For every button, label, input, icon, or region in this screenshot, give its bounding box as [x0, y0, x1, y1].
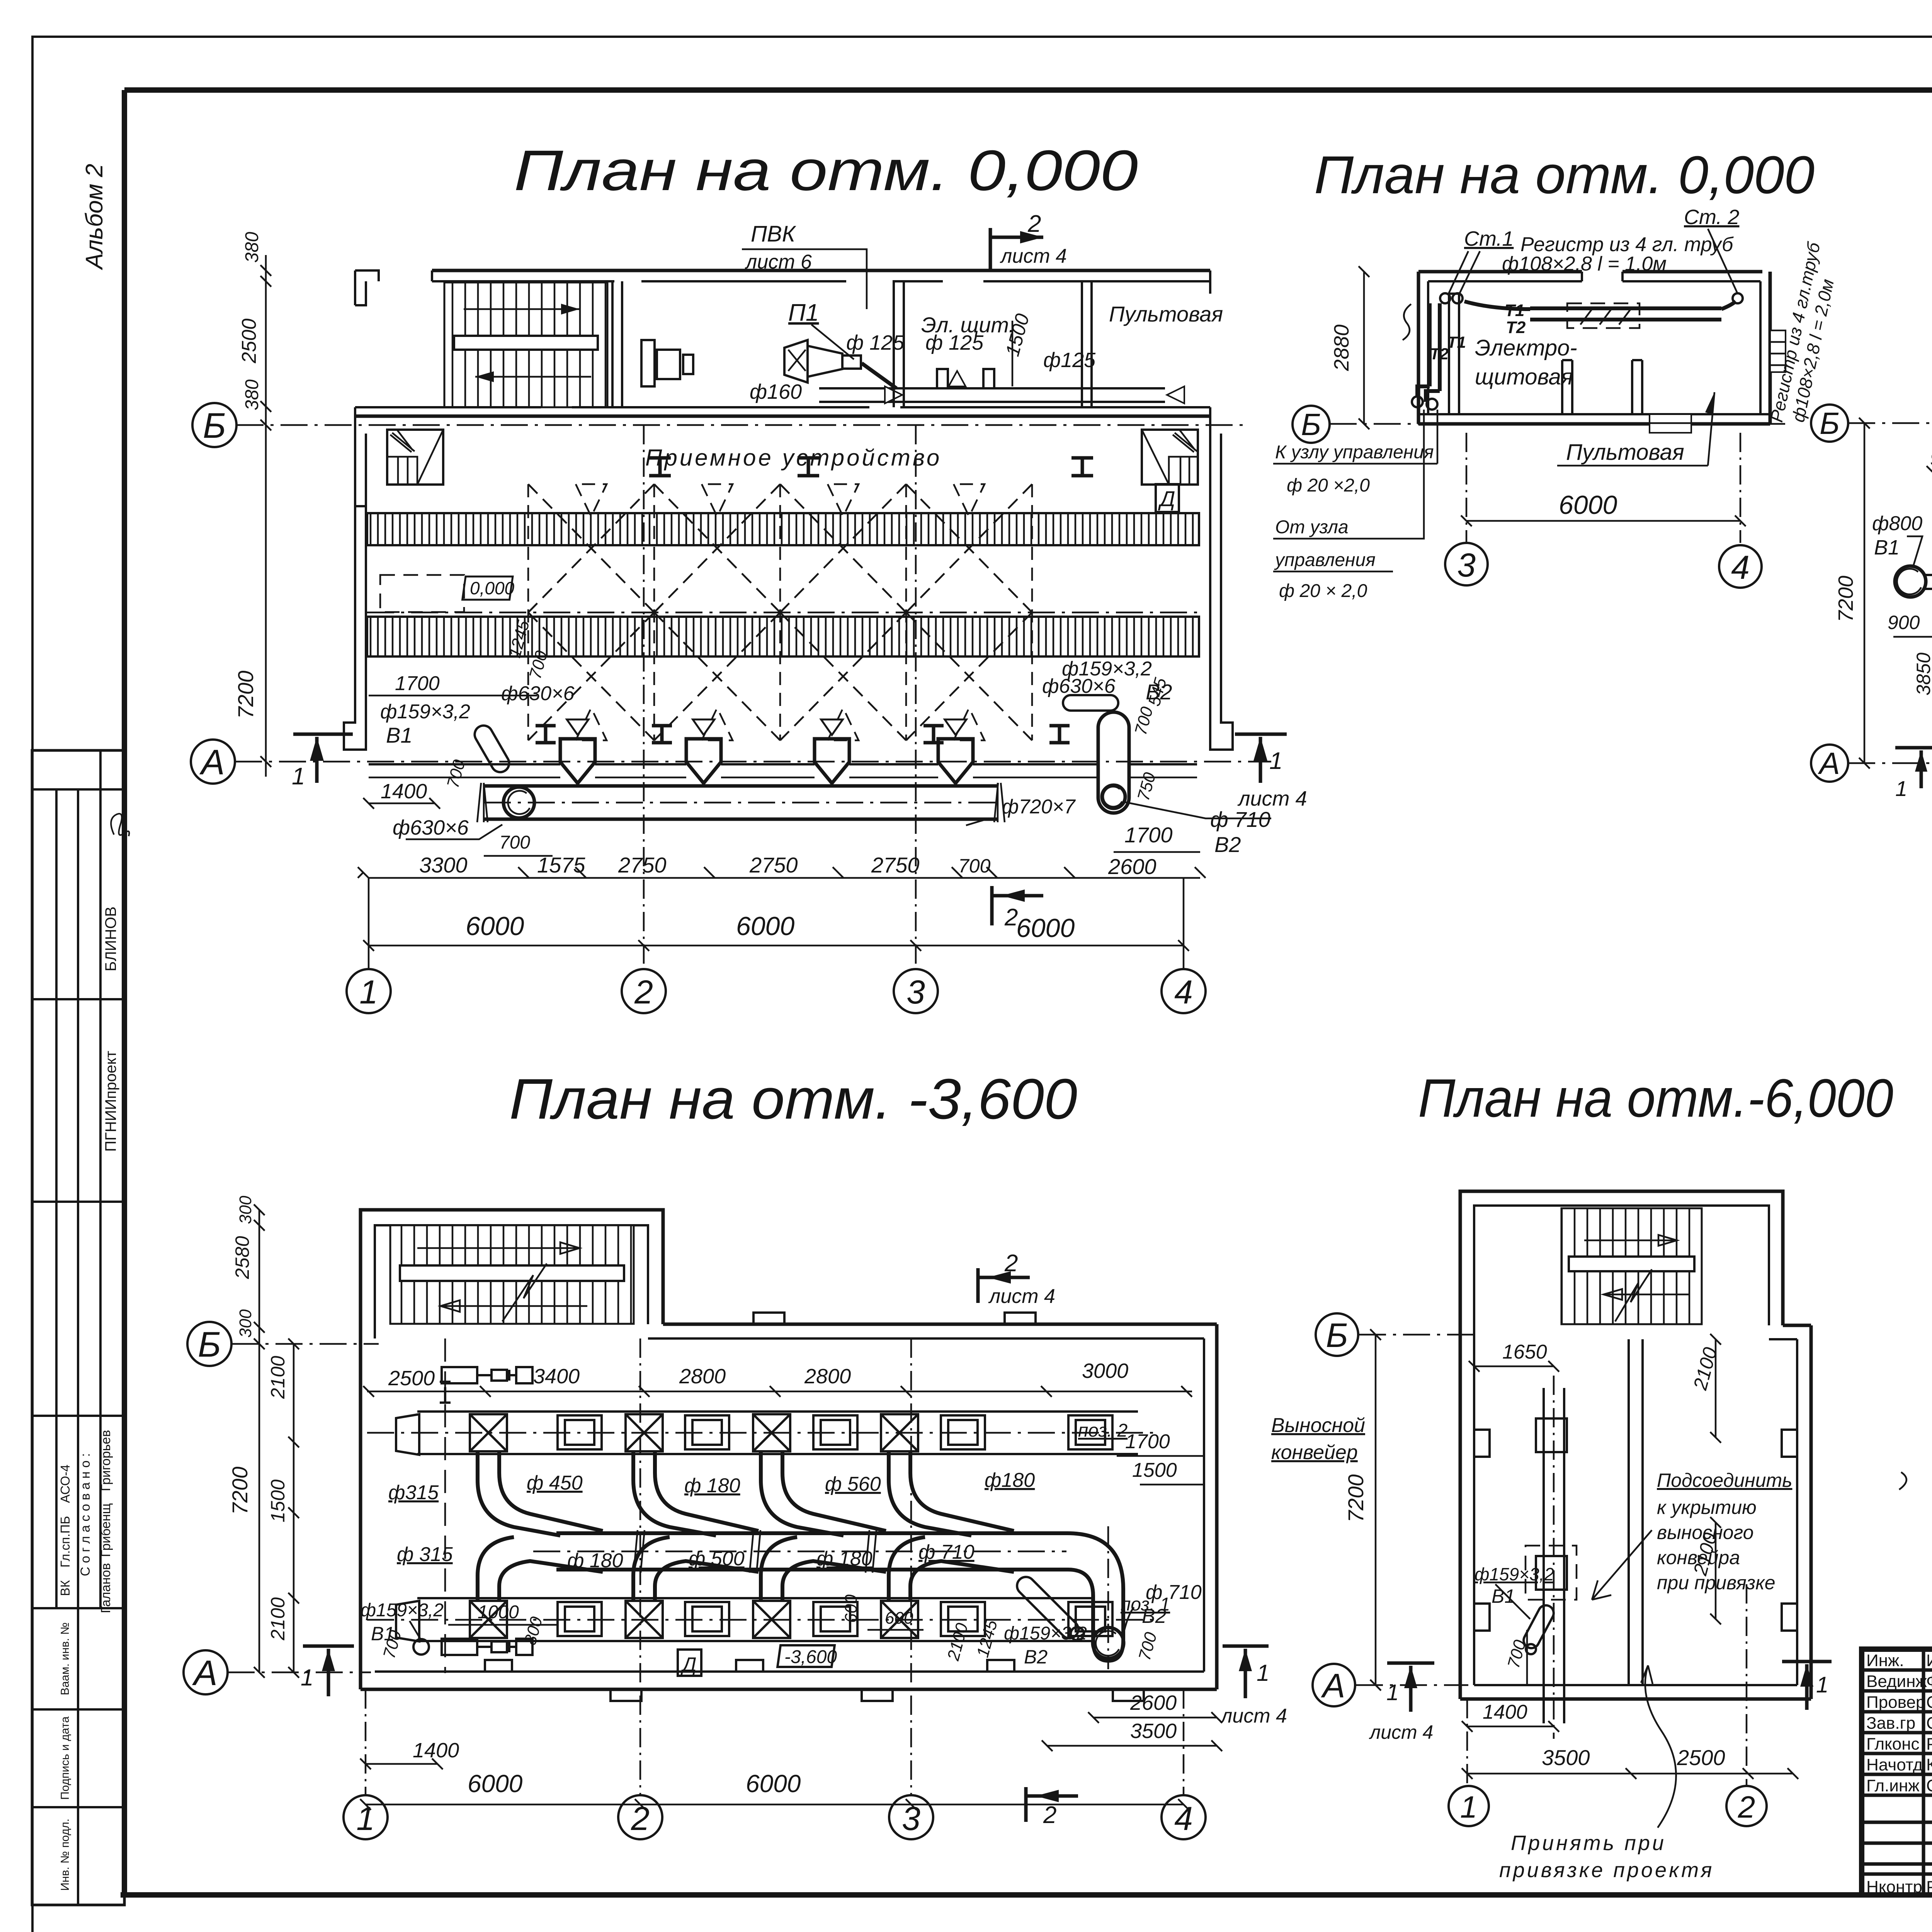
svg-text:К узлу управления: К узлу управления [1275, 442, 1434, 463]
svg-text:Пультовая: Пультовая [1566, 440, 1684, 465]
svg-text:6000: 6000 [468, 1770, 523, 1798]
dim 6000 chain [1466, 520, 1740, 522]
svg-text:2500: 2500 [1677, 1745, 1725, 1770]
svg-text:3500: 3500 [1542, 1745, 1590, 1770]
svg-text:ф159×3,2: ф159×3,2 [380, 701, 470, 723]
door steps bottom [1650, 414, 1691, 433]
svg-text:Приемное устройство: Приемное устройство [645, 445, 942, 471]
svg-text:7200: 7200 [233, 670, 258, 719]
axis B [1359, 1334, 1480, 1336]
dashed rect left [380, 575, 464, 612]
inclined hose B2 poz1 [1014, 1573, 1082, 1642]
lower branch pipes [478, 1537, 603, 1601]
svg-text:Д: Д [680, 1653, 697, 1676]
svg-text:1700: 1700 [1124, 823, 1173, 847]
riser St1 dots [1440, 293, 1450, 303]
svg-text:ф180: ф180 [985, 1469, 1035, 1492]
tower stair treads [390, 1225, 634, 1324]
svg-text:ф 20 ×2,0: ф 20 ×2,0 [1287, 475, 1370, 496]
svg-text:900: 900 [1930, 448, 1932, 469]
vent unit P1 rects [641, 340, 655, 386]
axis A circle [1811, 745, 1848, 782]
svg-text:1: 1 [1269, 748, 1282, 774]
svg-text:1: 1 [356, 1800, 375, 1837]
svg-text:2750: 2750 [749, 853, 798, 877]
vertical riser capsule B2 f710 [1098, 712, 1129, 813]
svg-text:Подсоединить: Подсоединить [1657, 1469, 1792, 1491]
inclined hose [1521, 1603, 1556, 1651]
svg-text:ф 500: ф 500 [689, 1548, 745, 1570]
svg-text:ф 560: ф 560 [825, 1473, 881, 1495]
svg-text:2500: 2500 [388, 1367, 435, 1390]
svg-text:700: 700 [958, 855, 991, 877]
inlet B1 circle [1895, 566, 1926, 597]
plan1 bottom dimension chain row1 [358, 823, 1206, 879]
plan1 grate strip lower [367, 617, 1199, 656]
svg-text:600: 600 [885, 1609, 913, 1628]
plan4 section flag 1 left [303, 1646, 354, 1696]
dim 2100 lower right [1715, 1522, 1717, 1619]
pipes to St1 [1464, 301, 1530, 309]
svg-text:1: 1 [292, 763, 305, 790]
top exterior wall [432, 269, 1210, 272]
riser axis dashline [444, 1338, 446, 1673]
B wall right part [1783, 1324, 1811, 1327]
hopper square upper 1 [470, 1414, 507, 1451]
svg-text:3300: 3300 [419, 853, 468, 877]
svg-text:Пультовая: Пультовая [1109, 302, 1223, 326]
duct f125 in vent chamber [862, 363, 896, 388]
axis circle B left [1293, 406, 1330, 443]
conveyor box upper 3 [813, 1415, 857, 1449]
stair tower walls [1460, 1191, 1783, 1699]
plan1 axis dim chain 6000s [363, 780, 1189, 951]
left upper wall pilaster [355, 270, 379, 305]
svg-text:В2: В2 [1024, 1646, 1048, 1668]
svg-text:Галанов: Галанов [99, 1563, 113, 1613]
axis B dashdot line [236, 424, 1248, 426]
hall left wall [355, 407, 366, 506]
svg-text:900: 900 [1888, 612, 1920, 633]
svg-text:Степанская: Степанская [1926, 1693, 1932, 1712]
svg-text:2500: 2500 [238, 318, 260, 364]
plan1 grid circles 1-4 [347, 425, 1206, 1013]
svg-text:1: 1 [301, 1665, 313, 1690]
svg-text:2800: 2800 [804, 1365, 851, 1388]
svg-text:Грибенщ: Грибенщ [99, 1503, 113, 1557]
plan4 main trunk duct [556, 1531, 1055, 1535]
svg-text:1500: 1500 [1132, 1459, 1177, 1481]
plan4 section flag 1 right [1223, 1646, 1269, 1698]
svg-text:ф315: ф315 [388, 1481, 439, 1504]
svg-text:конвейер: конвейер [1271, 1441, 1358, 1464]
svg-text:3: 3 [1457, 547, 1476, 584]
svg-text:Григорьев: Григорьев [99, 1430, 113, 1492]
svg-text:Инж.: Инж. [1866, 1651, 1904, 1670]
svg-text:Гл.инж: Гл.инж [1866, 1776, 1920, 1795]
axis A dashdot line [235, 761, 1271, 763]
plan4 top dim chain [363, 1359, 1192, 1397]
svg-text:ПГНИИпроект: ПГНИИпроект [102, 1051, 119, 1151]
svg-text:ф 710: ф 710 [1210, 807, 1270, 832]
svg-text:1: 1 [1895, 776, 1907, 801]
svg-text:С о г л а с о в а н о :: С о г л а с о в а н о : [78, 1453, 93, 1577]
svg-text:Выносной: Выносной [1271, 1414, 1365, 1437]
svg-text:600: 600 [842, 1594, 861, 1623]
wall between el.schit and pult [1082, 281, 1092, 407]
riser St2 dot [1733, 293, 1743, 303]
svg-text:Принять при: Принять при [1511, 1832, 1666, 1855]
svg-text:А: А [1818, 746, 1840, 781]
svg-text:В2: В2 [1214, 832, 1241, 857]
margin row lines [32, 788, 124, 791]
plan4 grid circles [344, 1338, 1206, 1839]
plan1 grate strip upper [367, 513, 1199, 545]
svg-text:А: А [199, 743, 224, 782]
svg-text:ф 710: ф 710 [918, 1541, 975, 1563]
svg-text:2: 2 [634, 974, 653, 1011]
svg-text:1: 1 [1386, 1680, 1399, 1705]
stair top-left [444, 282, 607, 407]
svg-text:1650: 1650 [1502, 1341, 1547, 1363]
svg-text:2880: 2880 [1330, 325, 1353, 371]
svg-text:В1: В1 [1492, 1585, 1515, 1607]
svg-text:План на отм. 0,000: План на отм. 0,000 [1314, 145, 1815, 205]
svg-text:1: 1 [1816, 1672, 1828, 1697]
svg-text:2580: 2580 [231, 1236, 253, 1279]
svg-text:Иванникова: Иванникова [1926, 1651, 1932, 1670]
svg-text:Д: Д [1158, 486, 1175, 511]
svg-text:От узла: От узла [1275, 517, 1349, 537]
section flag 1 left [1387, 1663, 1434, 1712]
conveyor box upper 1 [558, 1415, 602, 1449]
svg-text:Б: Б [1326, 1316, 1348, 1354]
bottom wall [1460, 1697, 1811, 1701]
top motor unit [440, 1367, 532, 1403]
main stamp outer [1862, 1649, 1932, 1895]
axis circle B [192, 403, 236, 447]
svg-text:ВК: ВК [58, 1580, 72, 1596]
signature rows [1862, 1668, 1932, 1672]
upper branch pipes [478, 1451, 603, 1536]
svg-text:1: 1 [1460, 1790, 1478, 1824]
svg-text:АСО-4: АСО-4 [58, 1464, 72, 1503]
wall notches bottom [485, 1660, 1144, 1701]
axis B [231, 1343, 379, 1345]
svg-text:6000: 6000 [736, 912, 794, 941]
svg-text:А: А [1321, 1667, 1345, 1705]
svg-text:Гл.сп.ПБ: Гл.сп.ПБ [58, 1516, 72, 1567]
svg-text:1575: 1575 [537, 853, 585, 877]
svg-text:7200: 7200 [228, 1466, 252, 1515]
svg-text:Федулова: Федулова [1926, 1672, 1932, 1691]
svg-text:1400: 1400 [1483, 1701, 1527, 1723]
hopper square lower 1 [470, 1601, 507, 1638]
svg-text:поз. 1: поз. 1 [1121, 1594, 1170, 1615]
heating register T1 T2 [1530, 306, 1721, 310]
I-beams above A wall [536, 726, 556, 743]
svg-text:4: 4 [1731, 549, 1750, 586]
svg-text:2750: 2750 [618, 853, 667, 877]
f710 elbow to B2 [1055, 1533, 1123, 1661]
section flag 1 left [1895, 748, 1932, 788]
axis A [228, 1672, 371, 1673]
axis B circle [1811, 405, 1848, 442]
svg-text:Зав.гр: Зав.гр [1866, 1714, 1915, 1733]
svg-text:3: 3 [906, 974, 925, 1011]
conveyor box upper 2 [685, 1415, 729, 1449]
dim 2880 left [1363, 272, 1365, 424]
label D box [678, 1650, 701, 1676]
grid circles 3 4 [1445, 543, 1488, 585]
svg-text:Т2: Т2 [1506, 318, 1526, 337]
svg-text:при привязке: при привязке [1657, 1572, 1776, 1594]
svg-text:6000: 6000 [466, 912, 524, 941]
conveyor box upper 4 [941, 1415, 985, 1449]
svg-text:6000: 6000 [1016, 913, 1075, 943]
margin signature [111, 814, 129, 836]
plan4 section flag 2 bottom [1026, 1787, 1078, 1822]
svg-text:0,000: 0,000 [470, 578, 515, 598]
svg-text:Эл. щит.: Эл. щит. [921, 313, 1015, 337]
svg-text:ф630×6: ф630×6 [393, 816, 469, 839]
svg-text:ф160: ф160 [750, 380, 802, 403]
conveyor box lower 3 [813, 1602, 857, 1636]
svg-text:ф 125: ф 125 [846, 331, 905, 354]
svg-text:ф630×6: ф630×6 [1042, 675, 1116, 697]
plan1 left vertical dims [233, 232, 271, 777]
svg-text:6000: 6000 [1559, 490, 1617, 520]
svg-text:2: 2 [1004, 1250, 1018, 1277]
B2 end circle [1093, 1628, 1124, 1658]
hopper square lower 2 [626, 1601, 663, 1638]
svg-text:выносного: выносного [1657, 1522, 1753, 1543]
svg-text:ф720×7: ф720×7 [1002, 796, 1076, 818]
svg-text:лист 6: лист 6 [745, 251, 812, 273]
svg-text:2100: 2100 [267, 1356, 289, 1399]
svg-text:лист 4: лист 4 [1237, 787, 1307, 810]
conveyor box lower 4 [941, 1602, 985, 1636]
svg-text:БЛИНОВ: БЛИНОВ [102, 906, 119, 971]
duct left end circle [503, 787, 534, 818]
svg-text:лист 4: лист 4 [1220, 1705, 1287, 1727]
dim 7200 [1375, 1335, 1377, 1685]
dim 7200 rotated [1864, 423, 1866, 763]
svg-text:лист 4: лист 4 [1369, 1721, 1433, 1743]
bottom motor unit [413, 1639, 532, 1655]
svg-text:380: 380 [242, 232, 262, 263]
svg-text:300: 300 [236, 1196, 255, 1224]
lower conveyor row strip [417, 1597, 1092, 1599]
svg-text:Т1: Т1 [1447, 333, 1466, 351]
svg-text:В1: В1 [386, 723, 413, 747]
svg-text:2: 2 [1043, 1802, 1056, 1828]
main drawing frame [124, 87, 1932, 93]
margin column lines [55, 789, 58, 1608]
svg-text:1400: 1400 [381, 780, 427, 803]
fan P1 [784, 340, 808, 383]
grid circles 1 2 [1466, 1699, 1468, 1785]
break mark [1403, 304, 1411, 340]
svg-text:поз. 2: поз. 2 [1078, 1420, 1128, 1441]
bottom chain 3500 2500 [1467, 1773, 1793, 1775]
svg-text:Коваленко: Коваленко [1926, 1755, 1932, 1774]
svg-text:6000: 6000 [746, 1770, 801, 1798]
horizontal capsule B2 f159 [1063, 695, 1118, 711]
center dashdot line of hall [367, 612, 1198, 614]
corner stair left in hall [387, 430, 443, 485]
svg-text:лист 4: лист 4 [988, 1285, 1055, 1308]
level label -3.600 [777, 1645, 835, 1667]
svg-text:1: 1 [359, 974, 378, 1011]
svg-text:3000: 3000 [1082, 1359, 1128, 1383]
label D box [1156, 484, 1179, 512]
conveyor shaft [1544, 1388, 1564, 1723]
svg-text:к укрытию: к укрытию [1657, 1497, 1757, 1518]
svg-text:Ст.1: Ст.1 [1464, 227, 1514, 250]
svg-text:2: 2 [1027, 211, 1041, 237]
section mark 1 left [293, 733, 353, 736]
svg-text:7200: 7200 [1344, 1474, 1368, 1522]
svg-text:ф125: ф125 [1043, 349, 1096, 372]
svg-text:2100: 2100 [267, 1597, 289, 1641]
svg-text:4: 4 [1174, 1800, 1193, 1837]
inner wall [1629, 1339, 1643, 1685]
hopper square upper 4 [881, 1414, 918, 1451]
svg-text:Степанская: Степанская [1926, 1714, 1932, 1733]
svg-text:План на отм. 0,000: План на отм. 0,000 [514, 139, 1138, 202]
svg-text:300: 300 [236, 1309, 255, 1338]
margin block frame [32, 750, 124, 1905]
svg-text:2: 2 [1004, 904, 1018, 931]
svg-text:3500: 3500 [1130, 1719, 1177, 1743]
svg-text:2750: 2750 [871, 853, 920, 877]
svg-text:Савинов: Савинов [1926, 1776, 1932, 1795]
svg-text:ф 180: ф 180 [816, 1548, 872, 1570]
stub partition 2 [1632, 360, 1642, 414]
building walls [1418, 270, 1762, 274]
signature area columns [1922, 1649, 1925, 1895]
svg-text:Ст. 2: Ст. 2 [1684, 206, 1739, 229]
conveyor box lower 2 [685, 1602, 729, 1636]
svg-text:3400: 3400 [533, 1365, 580, 1388]
small risers near wall [937, 369, 948, 388]
section mark 2 top [990, 228, 1043, 270]
svg-text:4: 4 [1174, 974, 1193, 1011]
right wall [1810, 1325, 1813, 1699]
svg-text:3: 3 [902, 1800, 920, 1837]
svg-text:2600: 2600 [1130, 1691, 1177, 1714]
inner partition left room [1449, 294, 1459, 414]
svg-text:3850: 3850 [1913, 653, 1932, 696]
funnel hoppers [560, 739, 595, 783]
svg-text:1000: 1000 [478, 1602, 519, 1622]
hopper square upper 2 [626, 1414, 663, 1451]
svg-text:Б: Б [1820, 406, 1840, 440]
svg-text:2800: 2800 [679, 1365, 726, 1388]
svg-text:ф 450: ф 450 [527, 1472, 583, 1494]
svg-text:Нконтр: Нконтр [1866, 1878, 1922, 1896]
svg-text:700: 700 [499, 832, 530, 853]
section flag 1 right [1782, 1662, 1832, 1710]
svg-text:конвейра: конвейра [1657, 1547, 1740, 1568]
svg-text:1: 1 [1257, 1660, 1269, 1686]
svg-text:Глконс: Глконс [1866, 1735, 1920, 1753]
svg-text:1400: 1400 [413, 1739, 459, 1762]
svg-text:ф159×3,2: ф159×3,2 [1004, 1623, 1087, 1644]
svg-text:А: А [192, 1653, 217, 1693]
plan4 left vertical dims [228, 1196, 299, 1678]
svg-text:Инв. № подл.: Инв. № подл. [59, 1819, 71, 1891]
hall bottom wall on axis A [369, 763, 1197, 765]
conveyor box lower 1 [558, 1602, 602, 1636]
wall notches top [753, 1313, 1036, 1324]
signature labels [1866, 1651, 1932, 1896]
svg-text:лист 4: лист 4 [1000, 245, 1067, 267]
axis A [1356, 1684, 1468, 1686]
svg-text:Вединж: Вединж [1866, 1672, 1927, 1691]
svg-text:2: 2 [631, 1800, 650, 1837]
conveyor box upper 5 [1068, 1415, 1112, 1449]
svg-text:1500: 1500 [267, 1480, 289, 1522]
svg-text:привязке проектя: привязке проектя [1499, 1859, 1714, 1882]
svg-text:Электро-: Электро- [1475, 335, 1577, 361]
window niche with hatch [1567, 303, 1639, 328]
svg-text:2600: 2600 [1108, 854, 1156, 879]
svg-text:7200: 7200 [1834, 576, 1857, 622]
stair tower walls [361, 1210, 663, 1689]
svg-text:План на отм.-6,000: План на отм.-6,000 [1418, 1068, 1893, 1128]
dim 2100 upper right [1715, 1339, 1717, 1437]
svg-text:ф800: ф800 [1872, 512, 1922, 535]
hopper square lower 3 [753, 1601, 790, 1638]
collecting duct f720x7 [484, 784, 998, 788]
svg-text:Б: Б [1301, 407, 1321, 442]
svg-text:-3,600: -3,600 [784, 1647, 837, 1667]
plan4 section flag 2 top [978, 1268, 1030, 1303]
X-brace truss grid [528, 484, 1032, 740]
diagonal capsule B1 f159 [471, 722, 512, 775]
svg-text:1700: 1700 [395, 672, 440, 695]
svg-text:щитовая: щитовая [1475, 364, 1573, 389]
section mark 1 right [1235, 733, 1287, 736]
right wall niche [1770, 330, 1786, 372]
svg-text:Рачицкий: Рачицкий [1926, 1735, 1932, 1753]
svg-text:ф 315: ф 315 [397, 1543, 453, 1566]
svg-text:Альбом 2: Альбом 2 [81, 164, 108, 271]
axis B line [1330, 423, 1785, 425]
hall right wall [1210, 407, 1233, 750]
level mark 0.000 [463, 577, 513, 600]
svg-text:ф159×3,2: ф159×3,2 [1475, 1564, 1554, 1584]
svg-text:Т2: Т2 [1430, 345, 1449, 363]
svg-text:Подпись и дата: Подпись и дата [59, 1716, 71, 1800]
svg-text:Рачицкий: Рачицкий [1926, 1878, 1932, 1896]
svg-text:Б: Б [198, 1325, 221, 1364]
plan4 bottom dims [360, 1691, 1222, 1810]
hopper square upper 3 [753, 1414, 790, 1451]
svg-text:управления: управления [1274, 550, 1376, 570]
I-beam symbols row under B [649, 458, 671, 476]
stub partition 1 [1562, 360, 1572, 414]
svg-text:План на отм. -3,600: План на отм. -3,600 [509, 1067, 1077, 1131]
wall notches [1474, 1430, 1797, 1631]
svg-text:ф 180: ф 180 [684, 1475, 740, 1497]
hopper square lower 4 [881, 1601, 918, 1638]
conveyor box lower 5 [1068, 1602, 1112, 1636]
svg-text:ф108×2,8 l = 1,0м: ф108×2,8 l = 1,0м [1502, 253, 1667, 275]
svg-text:ф 20 × 2,0: ф 20 × 2,0 [1279, 581, 1367, 601]
